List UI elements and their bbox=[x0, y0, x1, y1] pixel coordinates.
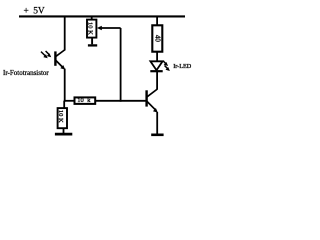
wire LED to Q1 collector bbox=[156, 72, 158, 90]
wire rail to P1 bbox=[91, 16, 93, 20]
LED emission arrows bbox=[163, 61, 170, 71]
wire rail to T1 collector bbox=[64, 16, 66, 50]
svg-text:+5V: +5V bbox=[24, 7, 45, 17]
LED D1 cathode bar bbox=[150, 70, 162, 72]
phototransistor T1 bbox=[55, 50, 65, 70]
resistor R3 (horizontal) bbox=[75, 97, 96, 104]
resistor R4 (vertical) bbox=[152, 25, 162, 51]
wire node A to R2 bbox=[63, 101, 65, 108]
wire T1 emitter to node A bbox=[64, 69, 66, 101]
potentiometer P1 body bbox=[87, 20, 96, 38]
wire Q1 emitter to ground bbox=[156, 112, 158, 134]
wiper arrow of P1 bbox=[97, 26, 121, 31]
transistor Q1 bbox=[147, 89, 158, 113]
junction wiper/base net bbox=[120, 100, 122, 102]
svg-text:Ir-Fototransistor: Ir-Fototransistor bbox=[3, 69, 49, 77]
svg-text:40: 40 bbox=[153, 35, 161, 43]
resistor R2 (vertical) bbox=[58, 108, 67, 128]
wire R3 to Q1 base bbox=[95, 100, 146, 102]
wire P1 wiper to base net bbox=[120, 28, 122, 101]
wire node A to R3 bbox=[65, 100, 75, 102]
power rail +5V bbox=[19, 15, 185, 17]
photo arrows (light into T1) bbox=[41, 51, 51, 58]
svg-text:Ir-LED: Ir-LED bbox=[173, 63, 192, 70]
ground left bbox=[55, 133, 72, 136]
wire R4 to LED D1 bbox=[156, 52, 158, 62]
svg-text:10 K: 10 K bbox=[57, 110, 64, 123]
svg-text:10 K: 10 K bbox=[87, 22, 94, 35]
wire rail to R4 bbox=[156, 16, 158, 25]
LED D1 anode triangle bbox=[150, 61, 162, 70]
ground right bbox=[151, 134, 163, 137]
wire R2 to ground bbox=[63, 128, 65, 133]
node A junction bbox=[64, 100, 66, 102]
terminal bar P1 bottom bbox=[88, 44, 97, 46]
wire P1 bottom lead bbox=[91, 38, 93, 45]
